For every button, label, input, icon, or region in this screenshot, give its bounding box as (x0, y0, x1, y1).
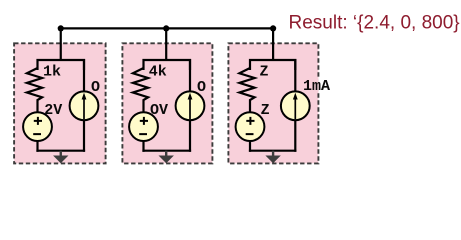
svg-text:4k: 4k (149, 64, 167, 81)
wire below I3 (294, 120, 296, 152)
wire: node stub 1 (60, 28, 62, 61)
resistor 4k (133, 68, 148, 113)
wire below I2 (189, 120, 191, 152)
voltage source V3 Z (236, 112, 265, 141)
wire: top bar 1 (38, 60, 85, 70)
current source I2 (176, 91, 205, 120)
supermesh box 3 (228, 43, 318, 163)
svg-text:Result: ‘{2.4, 0, 800}: Result: ‘{2.4, 0, 800} (289, 12, 460, 33)
svg-text:OV: OV (150, 102, 168, 119)
node dot 3 (270, 25, 276, 31)
svg-text:1mA: 1mA (303, 78, 330, 95)
svg-text:Z: Z (261, 102, 270, 119)
supermesh box 1 (14, 43, 106, 163)
wire above I2 (189, 59, 191, 93)
voltage source V1 2V (23, 112, 52, 141)
wire above I1 (83, 59, 85, 93)
wire above I3 (294, 59, 296, 93)
ground 2 (165, 151, 167, 157)
svg-text:Z: Z (260, 64, 269, 81)
wire: top bar 2 (144, 60, 191, 70)
wire: top bar 3 (250, 60, 295, 70)
wire below V1 (36, 141, 38, 152)
wire: node stub 2 (165, 28, 167, 61)
node dot 1 (58, 25, 64, 31)
resistor 1k (27, 68, 42, 113)
wire: bottom bar 1 (36, 150, 85, 152)
supermesh box 2 (122, 43, 212, 163)
ground 3 (272, 151, 274, 157)
wire: node stub 3 (272, 28, 274, 61)
wire: bottom bar 2 (142, 150, 191, 152)
current source I1 (70, 91, 99, 120)
wire: bottom bar 3 (249, 150, 297, 152)
svg-text:O: O (197, 79, 206, 96)
wire below I1 (83, 120, 85, 152)
wire below V3 (249, 141, 251, 152)
resistor Z (239, 68, 254, 113)
svg-text:1k: 1k (43, 64, 61, 81)
top wire (61, 27, 273, 29)
voltage source V2 0V (129, 112, 158, 141)
svg-text:2V: 2V (44, 102, 62, 119)
label 1mA background patch (314, 77, 318, 93)
current source I3 1mA (281, 91, 310, 120)
node dot 2 (163, 25, 169, 31)
wire below V2 (142, 141, 144, 152)
ground 1 (60, 151, 62, 157)
svg-text:O: O (91, 79, 100, 96)
